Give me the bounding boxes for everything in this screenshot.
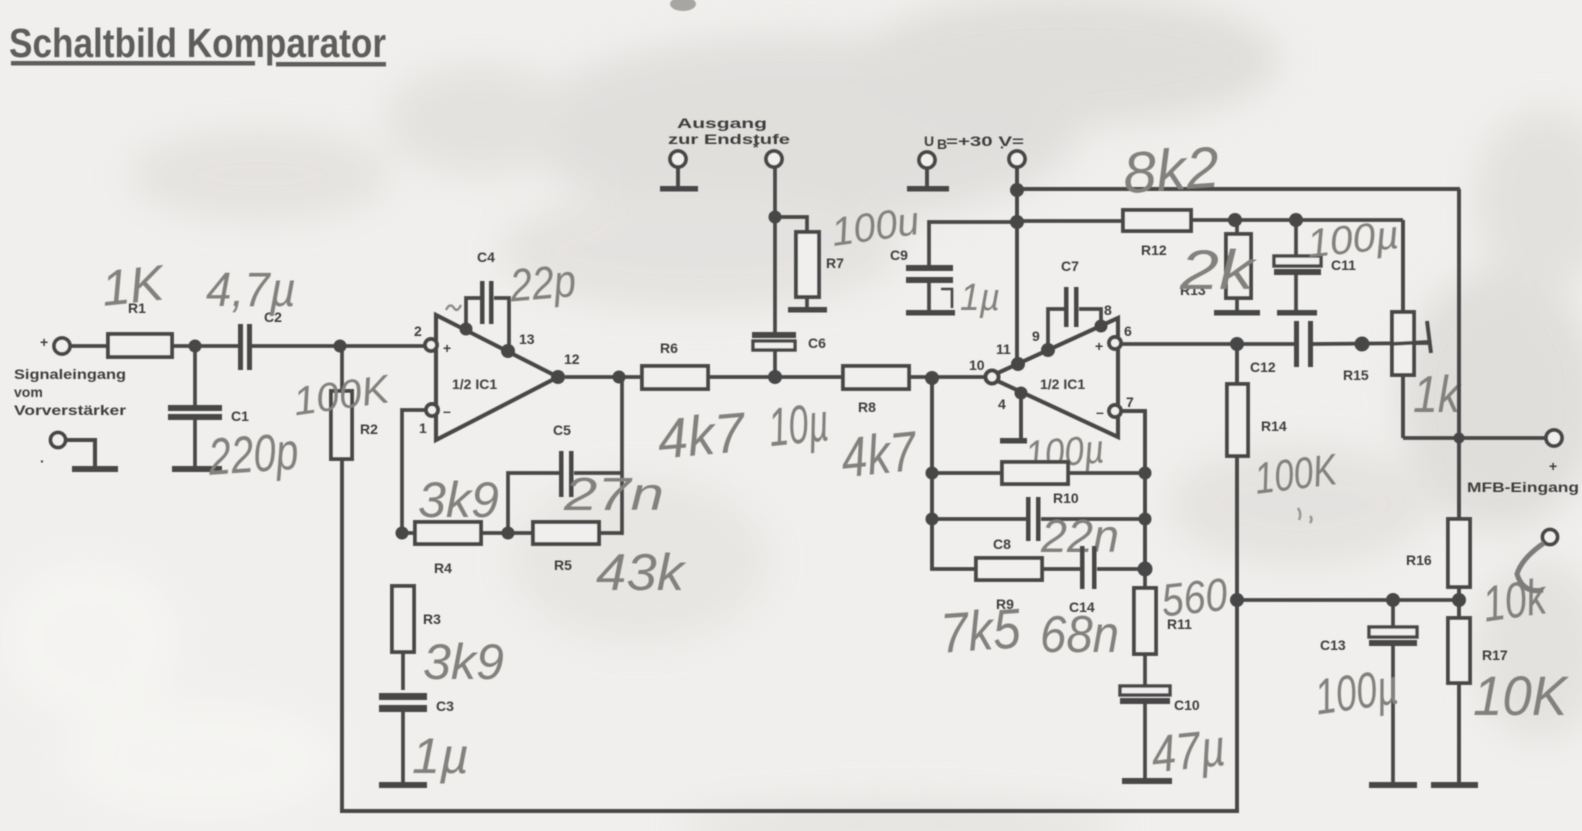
svg-text:Schaltbild Komparator: Schaltbild Komparator (9, 20, 386, 66)
wire bottom rail (340, 809, 1239, 813)
svg-text:MFB-Eingang: MFB-Eingang (1467, 479, 1579, 495)
svg-text:560: 560 (1159, 568, 1230, 627)
svg-text:12: 12 (564, 351, 580, 367)
smudge pencil marks (1298, 508, 1312, 523)
svg-text:43k: 43k (596, 544, 687, 602)
svg-text:R16: R16 (1406, 552, 1432, 568)
svg-text:R10: R10 (1053, 490, 1079, 506)
wire R5 up to output (620, 377, 624, 535)
value 2k handwritten R13 (1179, 238, 1258, 301)
resistor R17 (1448, 587, 1508, 783)
pin 13 compensation node (501, 331, 535, 358)
wire R2 down to bottom rail (340, 459, 344, 813)
value 100u handwritten R7 (829, 199, 922, 255)
resistor R7 (775, 217, 844, 308)
svg-text:3k9: 3k9 (418, 472, 499, 528)
value 10µ handwritten C6 (766, 392, 832, 458)
svg-text:–: – (443, 403, 451, 419)
value 100µ handwritten C13 (1311, 658, 1401, 725)
node junction C8 right (1139, 513, 1152, 526)
svg-text:13: 13 (519, 331, 535, 347)
svg-text:+: + (1549, 458, 1557, 474)
capacitor C10 (1120, 686, 1200, 779)
wire UB ground stem (925, 168, 929, 187)
wire +30V to pin11 (1015, 222, 1019, 358)
capacitor C1 (168, 352, 249, 467)
title Schaltbild Komparator (9, 20, 386, 67)
node junction +30V rail (1010, 183, 1024, 197)
svg-text:1µ: 1µ (412, 728, 469, 784)
svg-text:3k9: 3k9 (423, 634, 504, 690)
node junction R10 left (926, 467, 939, 480)
resistor R13 (1180, 220, 1251, 311)
svg-text:22p: 22p (507, 254, 578, 312)
value 68n handwritten C14 (1040, 606, 1119, 664)
svg-text:R2: R2 (360, 421, 378, 437)
svg-text:R3: R3 (423, 611, 441, 627)
ground Ausgang (660, 186, 698, 192)
svg-text:10k: 10k (1479, 568, 1551, 633)
resistor R3 (392, 586, 441, 690)
svg-text:R6: R6 (660, 340, 678, 356)
wire input to R1 (70, 344, 108, 348)
node junction C11 (1289, 213, 1303, 227)
value 3k9 handwritten R3 (423, 634, 504, 690)
capacitor C8 (932, 497, 1145, 552)
wire R12 to C11 line (1191, 218, 1403, 222)
node MFB-Eingang terminal (1546, 430, 1562, 474)
value 10k handwritten R16 (1479, 568, 1551, 633)
svg-text:C12: C12 (1250, 359, 1276, 375)
svg-text:C3: C3 (436, 698, 454, 714)
pin 4 supply node (998, 387, 1028, 413)
svg-text:4,7µ: 4,7µ (206, 264, 296, 317)
node junction R4/R5/C5 (502, 527, 515, 540)
svg-text:R8: R8 (858, 399, 876, 415)
resistor R10 (932, 462, 1145, 506)
ground C9 (906, 310, 955, 316)
ground UB (907, 186, 949, 192)
svg-text:1: 1 (419, 420, 427, 436)
svg-text:100µ: 100µ (1311, 658, 1401, 725)
svg-text:2: 2 (414, 323, 422, 339)
value 7k5 handwritten R9 (938, 596, 1023, 664)
svg-text:6: 6 (1124, 323, 1132, 339)
wire divider junction line (1237, 598, 1459, 602)
svg-text:C4: C4 (477, 249, 495, 265)
value 8k2 handwritten rail (1121, 135, 1221, 207)
svg-text:C7: C7 (1061, 258, 1079, 274)
node junction R14 bottom (1230, 593, 1244, 607)
node junction R14 top (1230, 337, 1244, 351)
value 3k9 handwritten R4 (418, 472, 499, 528)
node UB ground terminal (919, 152, 935, 168)
node junction MFB/divider (1454, 433, 1465, 444)
capacitor C9 (890, 222, 1017, 311)
pin 8 compensation node (1095, 302, 1113, 333)
svg-text:100K: 100K (1252, 445, 1341, 504)
ground input (72, 466, 118, 472)
node junction R11 top (1138, 562, 1153, 577)
value 4k7 handwritten R6 (655, 400, 749, 470)
wire MFB output line (1403, 436, 1546, 440)
svg-text:zur Endstufe: zur Endstufe (668, 131, 790, 147)
ground C11 (1277, 310, 1317, 316)
wire pin7 to right vertical (1121, 411, 1145, 569)
node junction C8 left (926, 513, 939, 526)
ground C10 (1122, 778, 1172, 784)
resistor R6 (642, 340, 708, 389)
svg-text:R14: R14 (1261, 418, 1287, 434)
svg-text:47µ: 47µ (1149, 719, 1229, 784)
svg-text:Vorverstärker: Vorverstärker (14, 402, 127, 418)
resistor R12 (1123, 210, 1191, 258)
wire right vertical 8k2 feedback (1457, 189, 1461, 519)
node junction C6 tap (768, 370, 782, 384)
capacitor C5 (508, 422, 622, 527)
svg-text:R12: R12 (1141, 242, 1167, 258)
svg-text:10K: 10K (1473, 664, 1569, 727)
op-amp U1a 1/2 IC1 (436, 315, 558, 440)
svg-text:220p: 220p (206, 423, 301, 487)
capacitor C13 (1320, 600, 1417, 783)
value 100µ handwritten C11 (1305, 213, 1401, 266)
svg-text:8k2: 8k2 (1121, 135, 1221, 207)
svg-text:4k7: 4k7 (838, 419, 921, 490)
capacitor C6 (752, 167, 826, 377)
node Signaleingang input terminal (40, 334, 70, 354)
label Signaleingang vom Vorverstärker (14, 366, 127, 418)
node input ground terminal (40, 433, 66, 470)
ground C1 (172, 466, 222, 472)
svg-text:–: – (1096, 404, 1104, 420)
wire R8 to op-amp2 (909, 375, 988, 379)
svg-text:22n: 22n (1040, 510, 1119, 562)
wire R14 down to bottom rail (1235, 456, 1239, 813)
wire R6 to R8 (708, 375, 843, 379)
wire feedback left vertical (930, 378, 934, 570)
svg-text:1µ: 1µ (960, 277, 1000, 319)
value 22n handwritten C8 (1040, 510, 1119, 562)
value 4,7µ handwritten (206, 264, 296, 317)
svg-text:R5: R5 (554, 557, 572, 573)
value 47µ handwritten C10 (1149, 719, 1229, 784)
resistor R2 (331, 346, 378, 459)
resistor R1 (108, 300, 172, 357)
node junction R16/R17 (1452, 593, 1466, 607)
trimmer R15 (1343, 220, 1431, 438)
wire rail to R12 (1017, 219, 1123, 223)
ground C3 (379, 782, 427, 788)
node Ausgang ground terminal (670, 151, 686, 167)
value 27n handwritten C5 (563, 468, 664, 520)
svg-text:9: 9 (1032, 328, 1040, 344)
wire C2 to op-amp pin2 (252, 344, 425, 348)
resistor R14 (1227, 344, 1287, 456)
wire +30V down (1015, 167, 1019, 222)
svg-text:+: + (443, 340, 451, 356)
pin 7 (1109, 394, 1134, 417)
capacitor C2 (238, 309, 282, 370)
resistor R16 (1406, 519, 1470, 587)
wire MFB ground hook handwritten (1517, 543, 1544, 591)
node junction wiper (1355, 337, 1370, 352)
pin 6 (1109, 323, 1132, 349)
svg-text:=+30 V=: =+30 V= (946, 133, 1024, 149)
capacitor C3 (379, 693, 454, 783)
pin 10 output node (969, 357, 999, 384)
wire pin4 down (1019, 393, 1023, 438)
svg-text:C9: C9 (890, 247, 908, 263)
value 43k handwritten R5 (596, 544, 687, 602)
value 10K handwritten R17 (1473, 664, 1569, 727)
wire pin1 feedback down (402, 410, 426, 533)
wire pin6 line to C12 (1121, 342, 1294, 346)
svg-text:C10: C10 (1174, 697, 1200, 713)
svg-text:+: + (40, 334, 48, 350)
node junction op-amp2 output (925, 371, 939, 385)
node junction R12 rail (1010, 215, 1024, 229)
smudge top middle (670, 0, 696, 11)
svg-text:10µ: 10µ (766, 392, 832, 458)
value 100µ handwritten near pin4 (1023, 427, 1106, 478)
wire Ausgang ground stem (676, 167, 680, 187)
ground C13 (1369, 782, 1417, 788)
value 100K handwritten R2 (291, 367, 395, 424)
capacitor C14 (1069, 546, 1145, 615)
svg-text:2k: 2k (1179, 238, 1258, 301)
svg-text:R7: R7 (826, 255, 844, 271)
value 220p handwritten C4 (507, 254, 578, 312)
resistor R9 (932, 558, 1080, 612)
svg-text:U: U (924, 133, 934, 149)
pin 3 compensation node (446, 305, 473, 336)
svg-text:10: 10 (969, 357, 985, 373)
node junction R4/R3 (396, 527, 409, 540)
resistor R11 (1134, 569, 1192, 686)
capacitor C7 (1048, 258, 1101, 344)
wire pin12 to R6 (565, 375, 642, 379)
node junction R10 right (1139, 467, 1152, 480)
svg-text:R17: R17 (1482, 647, 1508, 663)
pin 1 (419, 404, 438, 436)
svg-text:11: 11 (996, 341, 1011, 357)
wire top supply rail 8k2 (1017, 187, 1460, 191)
value 1k handwritten R15 (1413, 366, 1463, 424)
svg-text:C6: C6 (808, 335, 826, 351)
node junction R7 tap (769, 211, 782, 224)
svg-text:Ausgang: Ausgang (677, 115, 767, 131)
svg-text:1k: 1k (1413, 366, 1463, 424)
svg-text:R15: R15 (1343, 367, 1369, 383)
op-amp U1b 1/2 IC1 (989, 318, 1118, 437)
svg-text:+: + (1095, 338, 1103, 354)
svg-text:R4: R4 (434, 560, 452, 576)
capacitor C4 (466, 249, 509, 345)
capacitor C12 (1250, 321, 1313, 375)
wire input ground hook (66, 440, 95, 466)
svg-text:·: · (40, 453, 45, 469)
node Ausgang terminal (signal) (753, 139, 782, 167)
pin 2 (414, 323, 437, 351)
value 560 handwritten R11 (1159, 568, 1230, 627)
label Ausgang zur Endstufe (668, 115, 790, 147)
svg-text:68n: 68n (1040, 606, 1119, 664)
svg-text:1/2 IC1: 1/2 IC1 (452, 376, 497, 392)
ground R17 (1431, 782, 1478, 788)
svg-text:·: · (1000, 139, 1005, 155)
node MFB ground terminal (1543, 530, 1558, 545)
svg-text:C13: C13 (1320, 637, 1346, 653)
node junction output/R6 (613, 371, 626, 384)
value 4k7 handwritten R8 (838, 419, 921, 490)
capacitor C11 (1274, 220, 1356, 311)
node +30V terminal (1000, 139, 1025, 167)
ground pin4 (1000, 438, 1027, 444)
svg-text:4: 4 (998, 396, 1006, 412)
wire C12 to R15 wiper (1313, 343, 1428, 344)
pin 9 compensation node (1032, 328, 1055, 357)
svg-text:8: 8 (1104, 302, 1112, 318)
value 1K handwritten (99, 254, 169, 316)
label MFB-Eingang (1467, 479, 1579, 495)
svg-text:C5: C5 (553, 422, 571, 438)
resistor R4 (402, 522, 508, 576)
svg-text:4k7: 4k7 (655, 400, 749, 470)
value 1µ handwritten C9 (960, 277, 1000, 319)
value 1µ handwritten C3 (412, 728, 469, 784)
resistor R8 (843, 366, 909, 415)
node junction R1/C1 (189, 340, 202, 353)
svg-text:C1: C1 (231, 408, 249, 424)
ground R7 (788, 307, 827, 313)
svg-text:C8: C8 (993, 536, 1011, 552)
value 220p handwritten (206, 423, 301, 487)
wire R1 to C2 (172, 344, 238, 348)
svg-text:27n: 27n (563, 468, 664, 520)
value 100K handwritten R14 (1252, 445, 1341, 504)
ground R13 (1214, 310, 1260, 316)
svg-text:vom: vom (14, 384, 43, 400)
node junction C2/R2 (334, 340, 347, 353)
svg-text:7k5: 7k5 (938, 596, 1023, 664)
svg-text:1K: 1K (99, 254, 169, 316)
label UB=+30V (924, 133, 1024, 152)
node junction C13 top (1386, 593, 1400, 607)
svg-text:Signaleingang: Signaleingang (14, 366, 126, 382)
pin 11 supply node (996, 341, 1025, 371)
pin 12 output node (551, 351, 580, 384)
svg-text:7: 7 (1126, 394, 1134, 410)
node junction R13 (1228, 213, 1242, 227)
resistor R5 (508, 522, 622, 573)
svg-text:1/2 IC1: 1/2 IC1 (1040, 376, 1085, 392)
